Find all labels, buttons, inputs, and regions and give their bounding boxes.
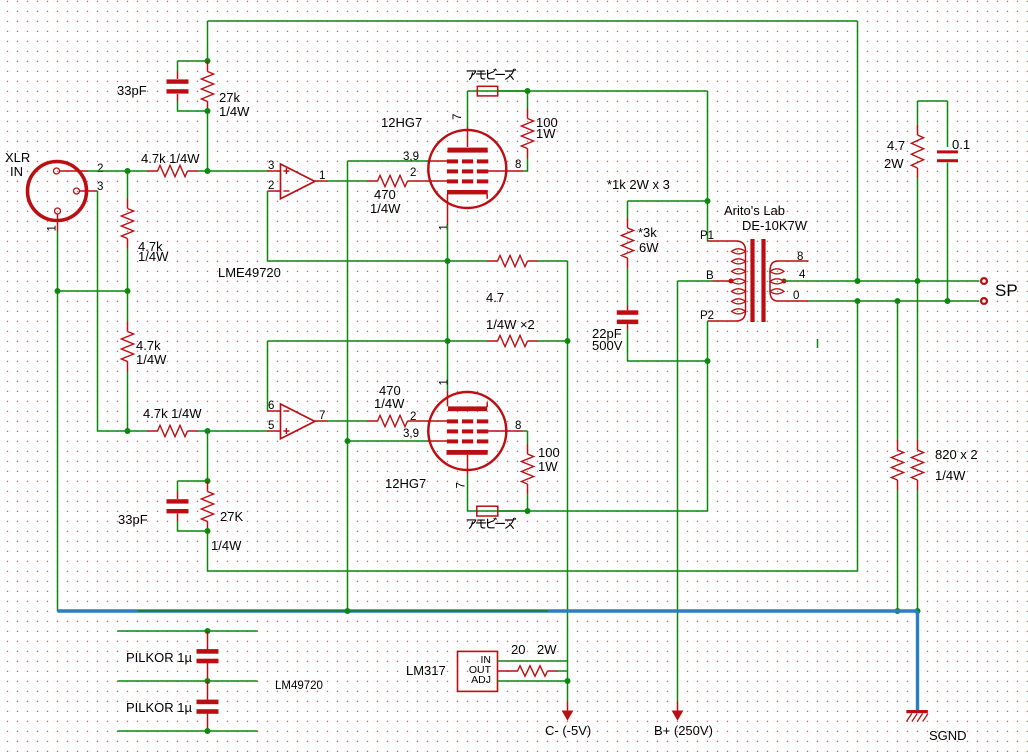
pin 2 stub V2 [428,420,450,422]
node junction ADJ/C- [565,678,571,684]
svg-text:820 x 2: 820 x 2 [935,447,978,462]
pin 8 stub V1 [488,170,523,172]
capacitor C6 PILKOR 1u [197,700,219,705]
resistor R14 4.7 2W body [911,135,923,168]
connector XLR pin3 pad [74,188,80,194]
svg-text:1/4W: 1/4W [374,396,405,411]
svg-text:C- (-5V): C- (-5V) [545,723,591,738]
capacitor C3 22pF [617,310,639,315]
svg-text:4: 4 [799,269,806,281]
svg-text:PILKOR 1µ: PILKOR 1µ [126,700,193,715]
wire tube2 g3 net [348,440,428,442]
resistor R10 470 leads [368,420,378,422]
svg-text:4.7k 1/4W: 4.7k 1/4W [143,406,202,421]
resistor R13 27K 1/4W [201,492,213,522]
svg-text:4.7k 1/4W: 4.7k 1/4W [141,151,200,166]
capacitor C2 33pF [167,499,189,503]
resistor R3 4.7k 1/4W body [121,209,133,239]
wire U1B -in up [267,341,269,411]
svg-text:3: 3 [268,160,274,172]
terminal SP- [981,298,987,304]
wire B+ column [677,281,679,702]
svg-text:B+ (250V): B+ (250V) [654,723,713,738]
svg-text:0: 0 [793,290,799,302]
bus SGND horizontal [58,609,918,612]
wire U2 IN pin [498,660,568,662]
op-amp U1A LME49720 body [281,164,315,199]
wire R7 to pin8 [523,170,528,172]
tube V2 cathode bar [448,406,487,411]
wire net over bus [138,610,549,612]
pin 1 stub V1 [447,194,449,225]
wire bead FB1 to node [498,90,528,92]
pin 2 stub XLR [59,170,88,172]
tube V2 grid dashes row1 [447,419,458,423]
tube V2 grid dashes row3 [447,439,458,443]
svg-text:2: 2 [410,411,416,423]
node 4 tap junction [782,279,787,284]
wire 3k top row [628,200,708,202]
wire R14 lower drop [917,281,919,440]
wire stray stub [817,339,819,348]
svg-text:7: 7 [452,114,464,120]
wire B+ feed [678,280,713,282]
wire tube1 g3 drop [347,161,349,611]
resistor R12 *3k 6W body [621,228,633,258]
svg-text:33pF: 33pF [117,83,147,98]
op-amp U1A minus sign [283,190,289,192]
capacitor C4 0.1 [937,150,958,153]
resistor R9 4.7 leads [488,340,498,342]
node junction cathode/row2 [445,338,451,344]
capacitor C6 PILKOR leads [207,681,209,700]
svg-text:1/4W: 1/4W [219,104,250,119]
tube V1 grid dashes row1 [447,159,458,163]
wire R11 to pin8 V2 [523,430,528,432]
svg-text:7: 7 [456,482,468,488]
node junction C4/sec0 [945,298,951,304]
svg-text:P2: P2 [700,310,714,322]
tube V1 12HG7 envelope [428,130,506,208]
node junction cathode/row1 [445,258,451,264]
resistor R11 100 1W body [521,454,533,484]
node junction bottom of 27K R13 [205,528,211,534]
svg-text:0.1: 0.1 [952,137,970,152]
regulator U2 LM317 box [458,651,498,691]
svg-text:2: 2 [268,180,274,192]
wire XLR pin2 to R1 [88,170,148,172]
pin 3 stub XLR [79,190,98,192]
svg-text:*1k 2W x 3: *1k 2W x 3 [607,177,670,192]
pin 6 stub U1B [268,410,281,412]
svg-text:XLR: XLR [5,150,30,165]
label FB2 amobeads [467,518,515,528]
wire cathode link V1-V2 [447,225,449,341]
svg-text:1: 1 [319,170,325,182]
svg-text:ADJ: ADJ [471,674,491,686]
pin 1 stub XLR [57,214,59,232]
wire R1 to opamp node [198,170,269,172]
wire row1 to CCS [538,260,568,262]
svg-text:20: 20 [511,642,525,657]
resistor R7 100 1W leads [527,91,529,109]
svg-text:5: 5 [268,420,274,432]
svg-text:SGND: SGND [929,728,967,743]
pin P1 P2 primary spine T1 [708,241,746,321]
node junction bottom of 27k R2 [205,108,211,114]
svg-text:470: 470 [374,187,396,202]
node junction pilkor row2 [205,678,211,684]
node B tap junction [729,279,734,284]
tube V1 grid dashes row2 [447,169,458,173]
pin 2 stub U1A [268,190,281,192]
pin 7 stub V1 [467,127,469,147]
resistor R6 470 leads [368,180,378,182]
node junction R15/sec0 [895,298,901,304]
op-amp U1B LME49720 body [281,404,315,439]
svg-text:2: 2 [97,163,103,175]
svg-text:1W: 1W [538,459,558,474]
pin 5 stub U1B [268,430,281,432]
capacitor C4 0.1 leads [947,101,949,147]
pin 8 0 secondary spine T1 [770,261,809,301]
wire sec0 to SP [809,300,980,302]
resistor R9 4.7 1/4W [498,335,528,346]
resistor R5 4.7k 1/4W [158,425,188,436]
svg-text:1/4W: 1/4W [136,352,167,367]
wire V1 plate up [467,91,469,127]
svg-text:6W: 6W [639,240,659,255]
capacitor C5 PILKOR 1u [197,649,219,654]
svg-text:1W: 1W [536,126,556,141]
connector XLR pin2 pad [54,168,60,174]
resistor R4 4.7k 1/4W body [121,332,133,362]
svg-text:2W: 2W [884,156,904,171]
svg-text:3,9: 3,9 [403,151,419,163]
wire U1A output [328,180,368,182]
pin 7 stub V2 [467,455,469,475]
power arrow B+ [677,702,679,712]
node junction P1/plate net [705,198,711,204]
wire V1 plate to bead [468,90,528,92]
resistor R15 820 body [891,450,903,480]
ferrite bead FB1 [477,86,497,96]
svg-text:IN: IN [10,164,23,179]
node junction FB1/R7/P1 net [525,88,531,94]
node junction pin2/R3 [125,168,131,174]
wire XLR pin3 rail [97,191,99,431]
svg-text:LM317: LM317 [406,663,446,678]
svg-text:4.7: 4.7 [887,138,905,153]
svg-text:PILKOR 1µ: PILKOR 1µ [126,650,193,665]
node junction R14/sec4 [915,278,921,284]
wire top feedback net [208,20,858,22]
svg-text:1: 1 [438,379,450,385]
pin 3,9 stub V2 [428,440,450,442]
svg-text:4.7k: 4.7k [136,338,161,353]
resistor R11 100 1W leads [527,431,529,444]
capacitor C3 leads [627,305,629,310]
svg-text:SP: SP [995,281,1018,300]
wire V2 plate down [467,475,469,511]
svg-text:100: 100 [538,445,560,460]
node junction g3 drop/row [345,438,351,444]
wire feedback row1 [268,260,488,262]
pin 3,9 stub V1 [428,160,450,162]
transformer T1 core [750,239,754,322]
svg-text:8: 8 [797,251,803,263]
pin 2 stub V1 [428,180,450,182]
node junction R1/27k/opamp [205,168,211,174]
tube V1 grid dashes row3 [447,179,458,183]
resistor R14 4.7 2W leads [917,101,919,125]
resistor R16 820 body [911,450,923,480]
resistor R8 4.7 1/4W [498,255,528,266]
connector XLR pin1 pad [55,208,61,214]
wire plate net to transformer [528,90,708,92]
resistor R5 4.7k leads [148,430,158,432]
ground symbol SGND [906,710,928,713]
node junction g3net/bus [345,608,351,614]
ferrite bead FB2 [477,506,498,516]
op-amp U1A plus sign [283,168,289,174]
wire CCS drop [567,341,569,702]
svg-text:P1: P1 [700,230,714,242]
wire 33pF C1 top branch [178,60,208,62]
pin 7 stub U1B [315,420,328,422]
wire U1A -in down [267,191,269,261]
wire top feedback right drop [857,21,859,281]
svg-text:1/4W: 1/4W [935,468,966,483]
wire ground row [208,570,858,572]
wire 27k to input node [207,111,209,171]
wire bead FB2 to node [498,510,528,512]
node junction row2/CCS [565,338,571,344]
svg-text:2: 2 [410,167,416,179]
capacitor C5 PILKOR leads [207,631,209,650]
tube V1 cathode bar [447,190,488,194]
resistor R10 470 1/4W [378,415,408,426]
svg-text:1/4W: 1/4W [370,201,401,216]
svg-text:7: 7 [319,410,325,422]
resistor R16 820 leads [917,440,919,450]
transformer T1 primary winding [732,249,746,254]
wire opamp2 node down [207,431,209,481]
svg-text:LM49720: LM49720 [275,680,323,692]
resistor R12 3k leads [627,201,629,218]
svg-text:8: 8 [515,159,521,171]
wire ground row right riser [857,301,859,571]
wire ground link row [58,290,128,292]
pin 1 stub U1A [315,180,328,182]
tube V1 plate bar [448,148,488,153]
node junction pilkor row3 [205,728,211,734]
wire P2 drop [707,321,709,361]
resistor R17 20 2W body [518,666,548,676]
svg-text:3,9: 3,9 [403,428,419,440]
wire zobel top [918,100,948,102]
svg-text:DE-10K7W: DE-10K7W [742,218,808,233]
node junction rail/R5 [125,428,131,434]
wire U1B output [328,420,368,422]
op-amp U1B plus sign [283,428,289,434]
svg-text:27k: 27k [219,90,240,105]
wire 33pF C2 bottom branch [177,514,179,521]
node junction P2/22pF [705,358,711,364]
terminal SP+ [981,278,987,284]
resistor R4 4.7k lower leads [127,291,129,322]
wire feedback row2 [268,340,488,342]
svg-text:1/4W: 1/4W [211,538,242,553]
svg-text:*3k: *3k [638,225,657,240]
svg-text:4.7: 4.7 [486,290,504,305]
pin 3 stub U1A [268,170,281,172]
svg-text:LME49720: LME49720 [218,265,281,280]
node junction R5/27K lower [205,428,211,434]
resistor R8 4.7 leads [488,260,498,262]
svg-text:33pF: 33pF [118,512,148,527]
node junction R3/R4 [125,288,131,294]
bus SGND vertical [916,611,919,711]
svg-text:12HG7: 12HG7 [385,476,426,491]
svg-text:8: 8 [515,420,521,432]
resistor R13 27K leads [207,481,209,492]
power arrow C- [567,702,569,712]
resistor R2 27k leads [207,61,209,72]
wire 22pF bottom row [628,360,708,362]
resistor R7 100 1W body [521,119,533,149]
svg-text:27K: 27K [220,509,243,524]
pin 8 stub V2 [488,430,523,432]
node junction R15/bus [895,608,901,614]
node junction pilkor row1 [205,628,211,634]
wire plate2 net to transformer [528,510,708,512]
op-amp U1B minus sign [283,410,289,412]
capacitor C1 33pF [167,79,189,83]
wire tube1 g3 net [348,160,428,162]
svg-text:500V: 500V [592,338,623,353]
node junction gnd/sec0 [855,298,861,304]
transformer T1 secondary winding [770,269,784,274]
svg-text:Arito's Lab: Arito's Lab [724,203,785,218]
wire P1 drop [707,201,709,241]
label FB1 amobeads [467,69,515,79]
wire 27K to ground row [207,531,209,571]
wire U2 ADJ pin [498,680,568,682]
resistor R17 20 2W leads [498,670,518,672]
svg-text:12HG7: 12HG7 [381,115,422,130]
resistor R1 4.7k 1/4W [158,165,188,176]
wire 33pF C1 bottom branch [177,94,179,101]
node junction top of 27k R2 [205,58,211,64]
wire pilkor row2 [118,680,258,682]
tube V2 plate bar [447,450,488,455]
pin B stub T1 [713,280,732,282]
svg-text:B: B [706,270,714,282]
node junction R16/bus [915,608,921,614]
wire 33pF C2 top branch [178,480,208,482]
node junction FB2/R11/P2 net [525,508,531,514]
tube V2 12HG7 envelope [428,392,506,470]
resistor R6 470 1/4W [378,175,408,186]
svg-text:6: 6 [268,400,274,412]
resistor R2 27k 1/4W [201,72,213,102]
resistor R3 4.7k upper leads [127,171,129,199]
wire XLR pin1 ground rail [57,231,59,611]
wire top feedback left drop [207,21,209,61]
pin 1 stub V2 [447,391,449,406]
tube V2 grid dashes row2 [447,429,458,433]
wire pilkor row3 [118,730,258,732]
connector XLR X1 body [28,162,87,221]
resistor R1 4.7k leads [148,170,158,172]
wire to opamp2 +in row [98,430,148,432]
wire R5 to opamp2 [198,430,269,432]
node junction rail/ground link [55,288,61,294]
node junction top of 27K R13 [205,478,211,484]
svg-text:1: 1 [47,225,59,231]
wire row2 to CCS [538,340,568,342]
svg-text:1/4W: 1/4W [138,249,169,264]
wire pilkor row1 [118,630,258,632]
node junction fb/sec4 [855,278,861,284]
svg-text:1/4W ×2: 1/4W ×2 [486,317,535,332]
resistor R15 820 leads [897,301,899,440]
svg-text:2W: 2W [537,642,557,657]
wire sec4 to SP [784,280,980,282]
svg-text:1: 1 [438,224,450,230]
